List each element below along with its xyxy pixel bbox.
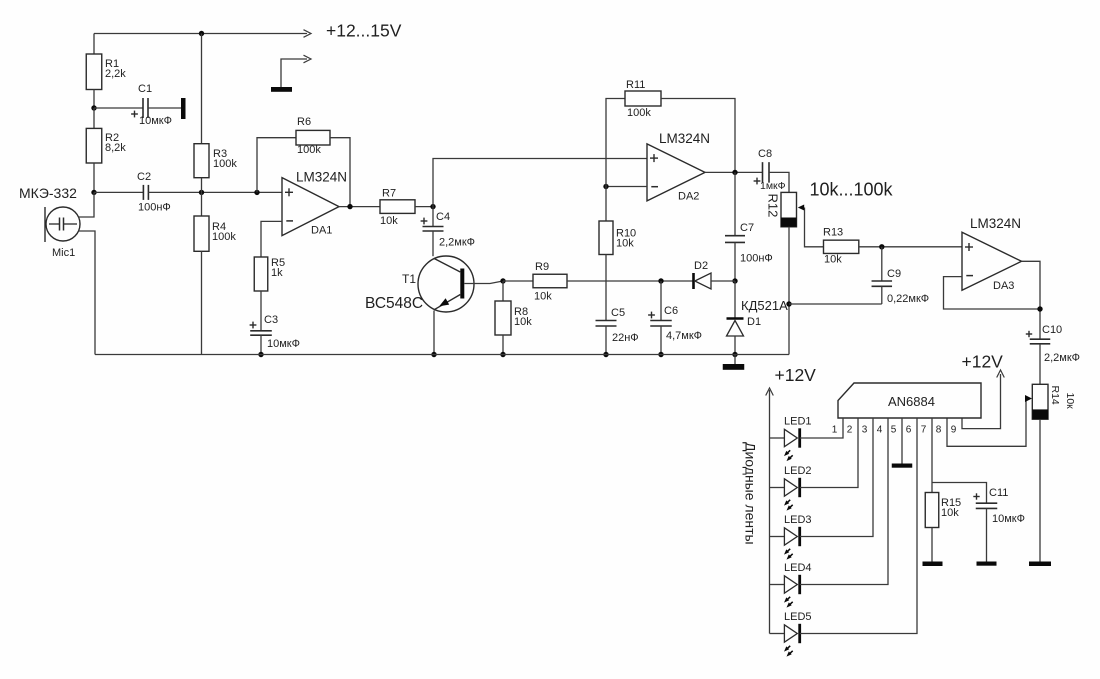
svg-text:2,2мкФ: 2,2мкФ	[439, 237, 475, 249]
svg-text:10мкФ: 10мкФ	[139, 115, 172, 127]
svg-text:Mic1: Mic1	[52, 247, 75, 259]
svg-text:R9: R9	[535, 261, 549, 273]
svg-text:D1: D1	[747, 316, 761, 328]
svg-text:3: 3	[862, 425, 868, 436]
svg-text:R11: R11	[626, 79, 645, 91]
svg-text:T1: T1	[402, 272, 416, 286]
svg-text:R7: R7	[382, 188, 396, 200]
svg-text:C5: C5	[611, 307, 625, 319]
svg-text:2,2k: 2,2k	[105, 68, 126, 80]
svg-text:4,7мкФ: 4,7мкФ	[666, 330, 702, 342]
svg-text:C4: C4	[436, 211, 450, 223]
svg-text:+12V: +12V	[775, 365, 817, 385]
svg-text:2: 2	[847, 425, 853, 436]
svg-text:C10: C10	[1042, 324, 1062, 336]
svg-text:C9: C9	[887, 268, 901, 280]
svg-text:1мкФ: 1мкФ	[760, 180, 786, 192]
svg-text:LM324N: LM324N	[659, 131, 710, 146]
svg-text:LM324N: LM324N	[296, 170, 347, 185]
svg-text:C8: C8	[758, 148, 772, 160]
svg-text:R6: R6	[297, 116, 311, 128]
svg-text:LED3: LED3	[784, 514, 812, 526]
svg-text:C11: C11	[989, 487, 1008, 499]
svg-text:Диодные ленты: Диодные ленты	[743, 442, 759, 545]
svg-text:LED5: LED5	[784, 611, 812, 623]
svg-text:D2: D2	[694, 260, 708, 272]
svg-text:AN6884: AN6884	[888, 394, 935, 409]
svg-text:22нФ: 22нФ	[612, 332, 639, 344]
svg-text:DA3: DA3	[993, 280, 1014, 292]
svg-text:C3: C3	[264, 314, 278, 326]
svg-text:C6: C6	[664, 305, 678, 317]
svg-text:10k: 10k	[616, 238, 634, 250]
svg-text:1: 1	[832, 425, 838, 436]
svg-text:4: 4	[877, 425, 883, 436]
svg-text:6: 6	[906, 425, 912, 436]
svg-text:5: 5	[891, 425, 897, 436]
svg-text:8,2k: 8,2k	[105, 142, 126, 154]
svg-text:+12V: +12V	[962, 352, 1004, 372]
svg-text:ВС548С: ВС548С	[365, 295, 423, 312]
svg-text:10k: 10k	[380, 215, 398, 227]
svg-text:10k: 10k	[534, 291, 552, 303]
svg-text:2,2мкФ: 2,2мкФ	[1044, 352, 1080, 364]
svg-text:1k: 1k	[271, 267, 283, 279]
svg-text:100k: 100k	[627, 107, 651, 119]
svg-text:МКЭ-332: МКЭ-332	[19, 185, 77, 201]
svg-text:R13: R13	[823, 227, 843, 239]
svg-text:10к: 10к	[1064, 393, 1076, 410]
svg-text:10мкФ: 10мкФ	[267, 338, 300, 350]
svg-text:C7: C7	[740, 222, 754, 234]
svg-text:C1: C1	[138, 83, 152, 95]
svg-text:8: 8	[936, 425, 942, 436]
svg-text:КД521А: КД521А	[741, 298, 788, 313]
svg-text:LED2: LED2	[784, 465, 812, 477]
svg-text:DA2: DA2	[678, 191, 699, 203]
svg-text:0,22мкФ: 0,22мкФ	[887, 293, 929, 305]
svg-text:10k: 10k	[514, 316, 532, 328]
svg-text:100k: 100k	[297, 144, 321, 156]
svg-text:10k: 10k	[941, 507, 959, 519]
svg-text:C2: C2	[137, 171, 151, 183]
svg-text:LED1: LED1	[784, 416, 812, 428]
svg-text:100k: 100k	[213, 158, 237, 170]
svg-text:LED4: LED4	[784, 562, 812, 574]
svg-text:10k: 10k	[824, 254, 842, 266]
svg-text:100нФ: 100нФ	[740, 253, 773, 265]
svg-text:10k...100k: 10k...100k	[810, 180, 894, 200]
svg-text:R14: R14	[1049, 386, 1061, 405]
svg-text:7: 7	[921, 425, 927, 436]
svg-text:100нФ: 100нФ	[138, 202, 171, 214]
svg-text:9: 9	[951, 425, 957, 436]
svg-text:100k: 100k	[212, 231, 236, 243]
svg-text:LM324N: LM324N	[970, 216, 1021, 231]
svg-text:DA1: DA1	[311, 225, 332, 237]
svg-text:R12: R12	[766, 194, 781, 218]
svg-text:10мкФ: 10мкФ	[992, 513, 1025, 525]
svg-text:+12...15V: +12...15V	[326, 21, 402, 41]
